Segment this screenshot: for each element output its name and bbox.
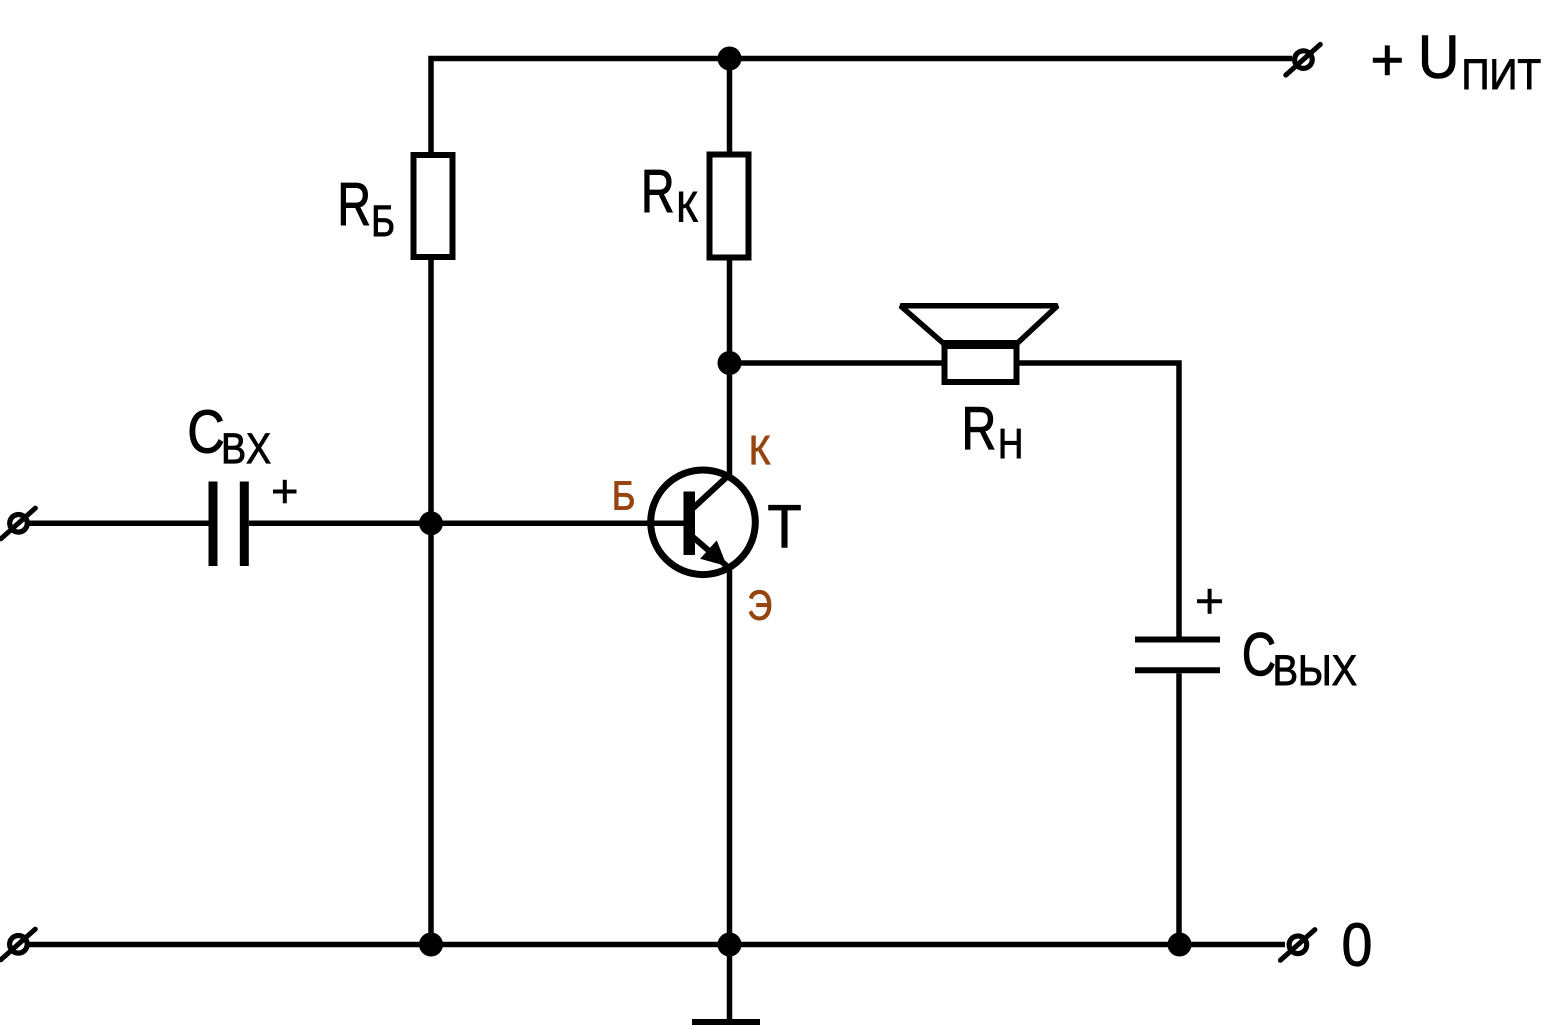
transistor base bar: [684, 492, 696, 556]
transistor emitter arrowhead: [700, 540, 727, 566]
plus sign of Upit: [1373, 45, 1402, 75]
wire top rail from RB corner to +Upit terminal: [431, 59, 1292, 161]
node bottom Cvyh column: [1168, 933, 1192, 957]
label Upit: [1422, 36, 1455, 79]
ground stem: [727, 945, 733, 1020]
speaker RH body: [945, 346, 1017, 382]
wire bottom rail: [28, 942, 1285, 948]
plus sign of Cvx: [273, 480, 297, 504]
transistor base wire inside circle: [645, 521, 686, 527]
terminal bottom left: [1, 929, 36, 960]
pin label B base: [615, 481, 634, 509]
resistor RK: [710, 155, 749, 258]
transistor T circle: [651, 470, 756, 575]
label Cvx: [190, 410, 223, 453]
plus sign of Cvyh: [1197, 589, 1222, 614]
pin label K collector: [752, 436, 770, 464]
terminal 0 bottom right: [1280, 930, 1315, 961]
capacitor Cvx plate right: [240, 482, 249, 567]
transistor collector diagonal: [690, 474, 731, 512]
wire RB bottom down to bottom rail: [428, 257, 434, 945]
capacitor Cvx plate left: [209, 482, 218, 567]
resistor RB: [414, 155, 453, 257]
label RH: [965, 407, 994, 449]
wire Cvx to base node to transistor: [249, 521, 686, 527]
ground bar: [692, 1019, 760, 1025]
capacitor Cvyh plate bottom: [1135, 667, 1220, 673]
wire Cvyh bottom to bottom rail: [1176, 673, 1182, 944]
node top junction at RK column: [718, 47, 742, 71]
wire collector vertical: [727, 365, 733, 475]
wire RK bottom to collector node: [727, 257, 733, 363]
wire from top rail down to RK: [727, 59, 733, 161]
wire speaker to right column corner down to Cvyh: [1016, 363, 1179, 637]
label RB: [341, 183, 369, 225]
wire input to Cvx: [28, 521, 209, 527]
speaker RH cone: [901, 306, 1058, 343]
pin label E emitter: [749, 590, 771, 620]
terminal +Upit top right: [1286, 44, 1321, 75]
node collector junction: [718, 351, 742, 375]
node bottom emitter column: [718, 933, 742, 957]
label RK: [645, 170, 673, 212]
input terminal: [1, 508, 36, 539]
wire emitter vertical: [727, 566, 733, 945]
label 0: [1344, 923, 1370, 966]
wire collector node to speaker: [730, 360, 947, 366]
label T: [769, 505, 801, 547]
transistor emitter diagonal: [690, 535, 729, 568]
label Cvyh: [1244, 633, 1274, 676]
node bottom RB column: [419, 933, 443, 957]
node base junction: [419, 511, 443, 535]
capacitor Cvyh plate top: [1135, 637, 1220, 643]
